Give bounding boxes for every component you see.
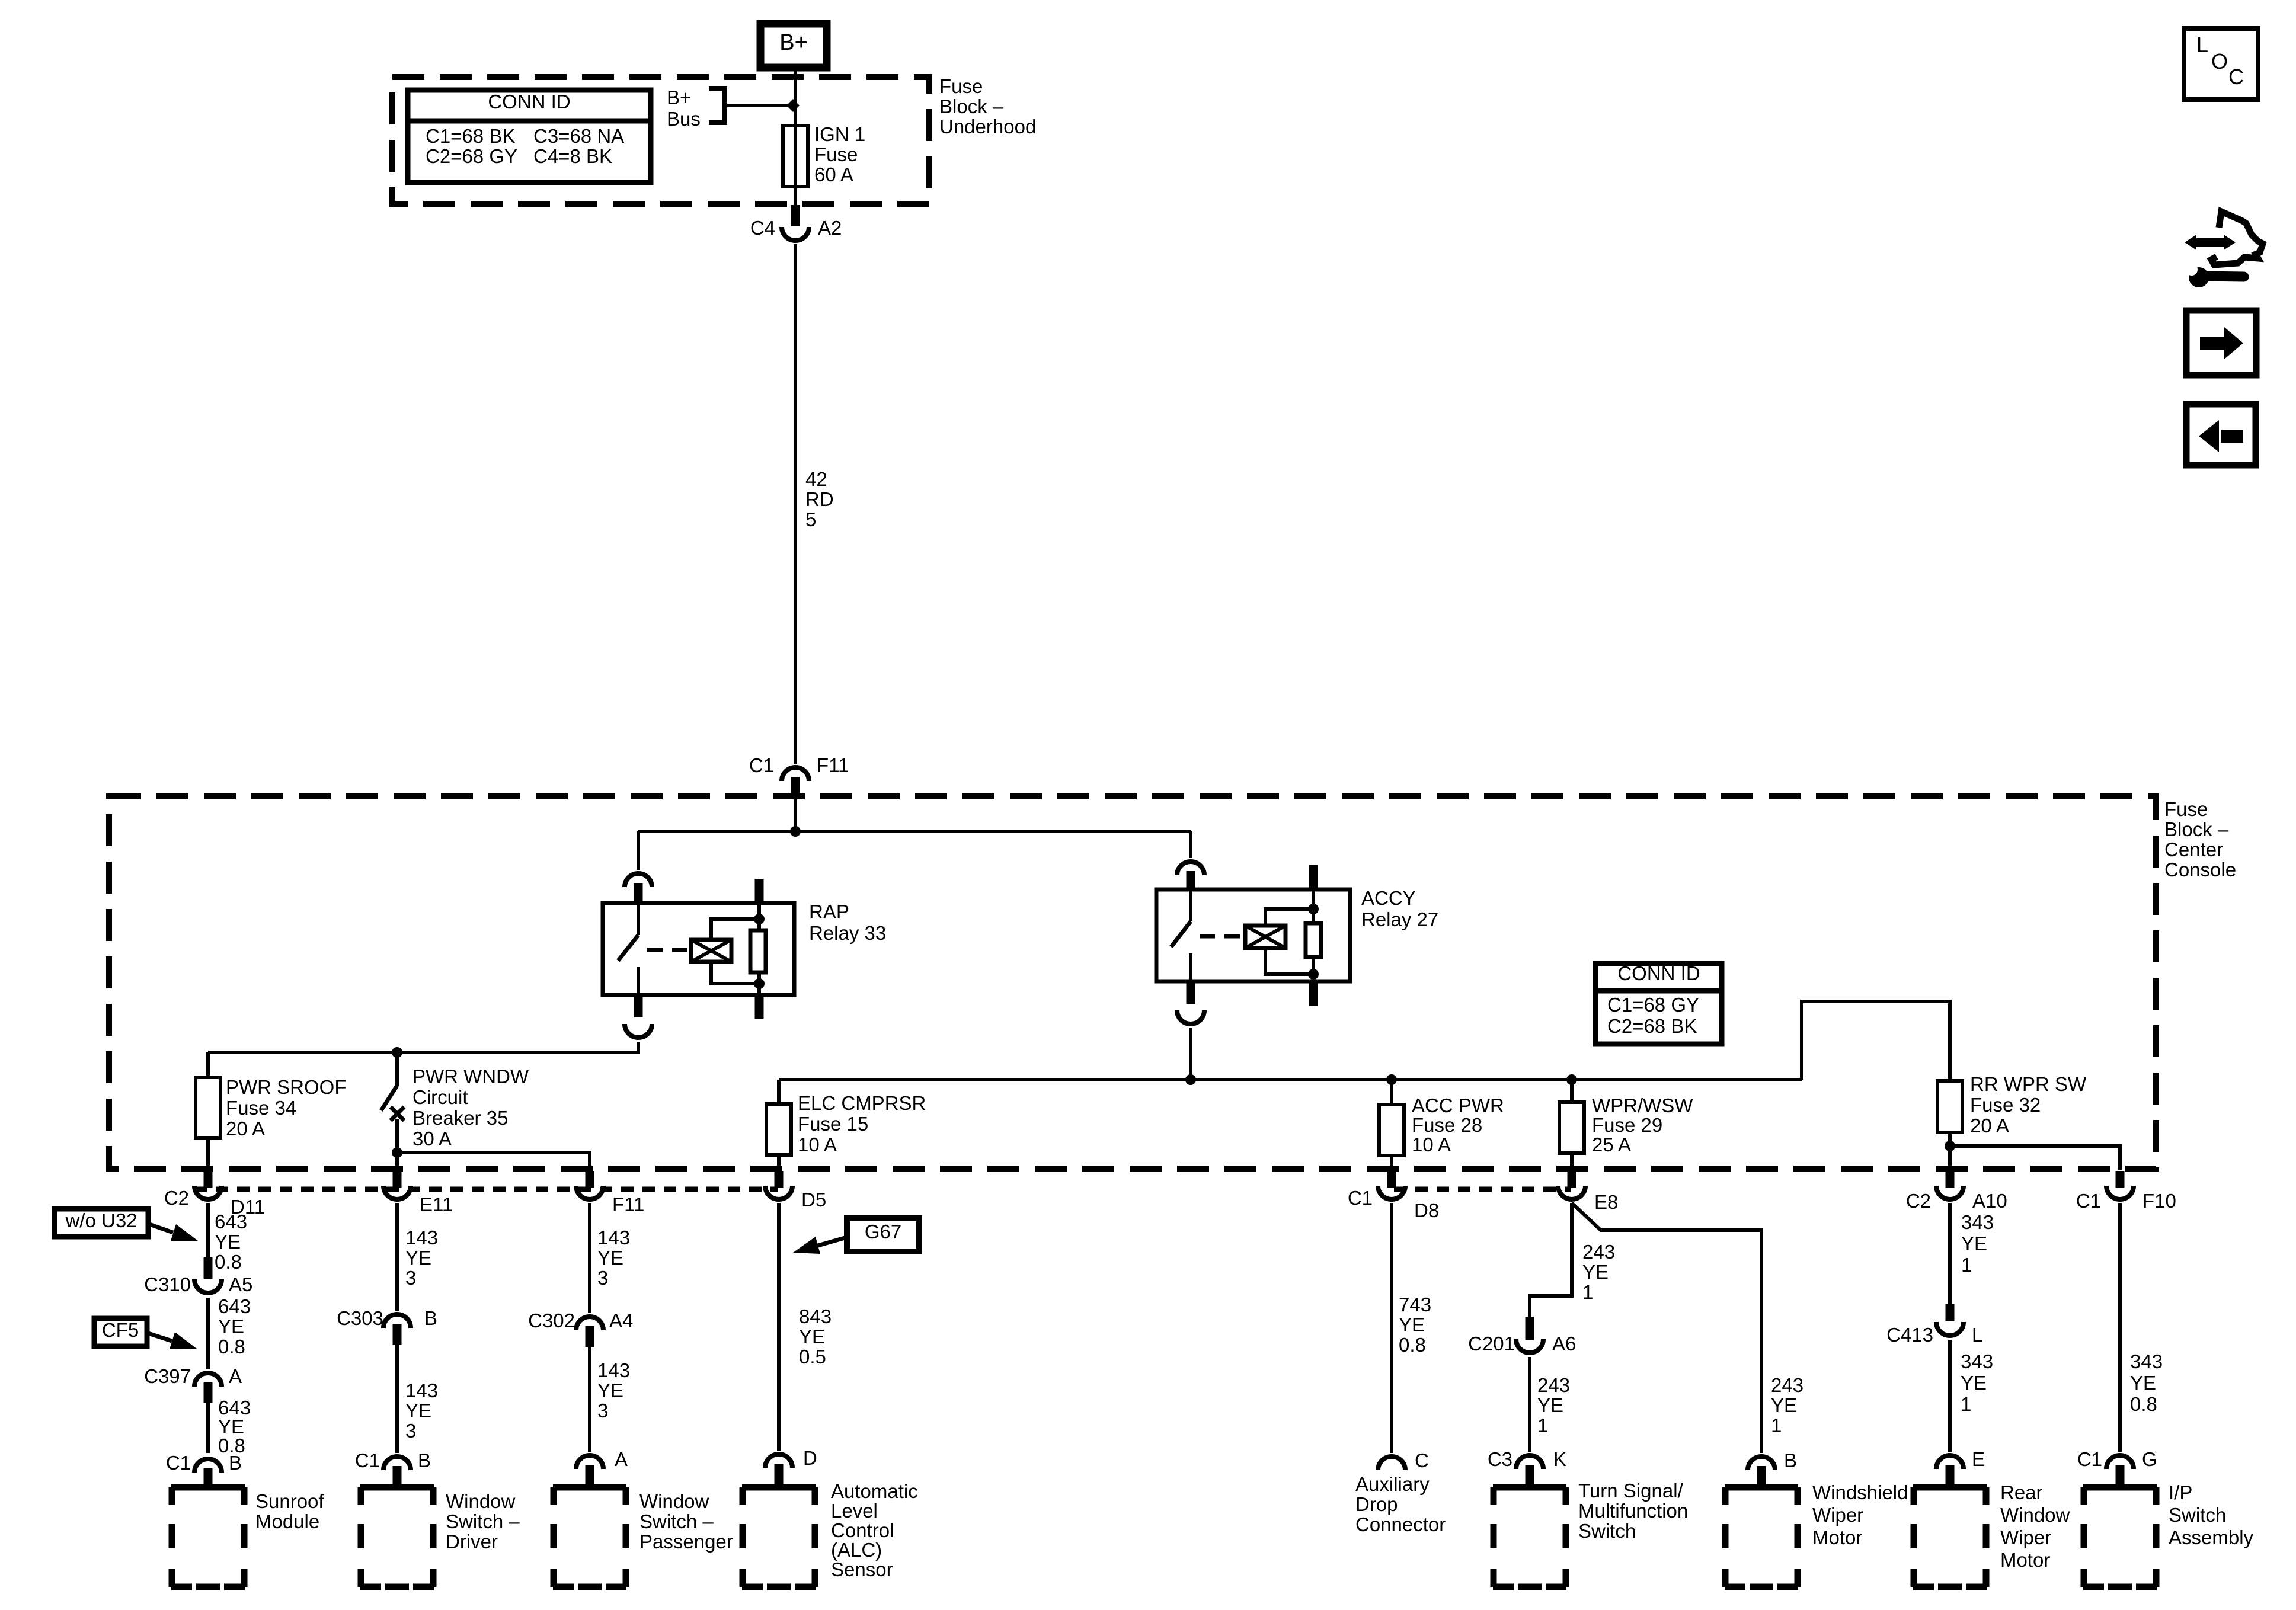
connector C397 pin A inline [194,1373,222,1387]
wire 343 YE 0.8 [2118,1203,2122,1452]
svg-text:1: 1 [1961,1254,1972,1276]
svg-text:F10: F10 [2142,1190,2176,1212]
wire rail to ACC PWR fuse [1390,1080,1393,1105]
svg-text:643: 643 [218,1295,251,1317]
wire 143 YE 3 segment 1 col3 [588,1203,591,1313]
svg-text:CONN ID: CONN ID [488,91,570,113]
svg-text:0.8: 0.8 [1399,1334,1426,1356]
svg-text:843: 843 [799,1305,832,1327]
svg-text:w/o U32: w/o U32 [65,1209,137,1231]
svg-text:343: 343 [1961,1211,1994,1233]
wire fuse 32 to A10 and F10 branch [1948,1132,1952,1170]
svg-text:B+: B+ [667,87,691,108]
arrow CF5 to wire [148,1333,172,1341]
connector C303 pin B inline [383,1314,411,1328]
RAP relay actuation dashed link [647,948,691,952]
node RAP coil bottom junction [754,978,765,989]
module Window Switch Driver box [360,1484,381,1491]
svg-text:A5: A5 [229,1273,252,1295]
connector pin E8 fuse block exit [1568,1171,1576,1188]
svg-text:YE: YE [597,1379,623,1401]
fuse WPR/WSW Fuse 29 25A [1559,1102,1584,1153]
wire 343 YE 1 segment 1 [1948,1203,1952,1304]
svg-text:B: B [424,1307,437,1329]
module Windshield Wiper Motor box [1725,1484,1745,1491]
svg-text:Turn Signal/: Turn Signal/ [1578,1480,1684,1502]
svg-text:C1=68 GY: C1=68 GY [1607,994,1699,1016]
node B+ bus junction diamond [786,99,800,112]
wire RAP output to left fuse rail [208,1042,638,1052]
svg-text:743: 743 [1399,1294,1431,1315]
icon LOC reference box [2184,28,2258,100]
connector C201 pin A6 inline [1526,1317,1534,1340]
node ACCY rail junction [1185,1074,1196,1085]
ACCY relay pin 5 stubs [1309,865,1318,889]
svg-text:143: 143 [597,1227,630,1249]
svg-text:Motor: Motor [2000,1549,2050,1571]
svg-text:Underhood: Underhood [939,116,1036,137]
svg-text:343: 343 [1961,1350,1993,1372]
svg-text:Block –: Block – [2164,818,2229,840]
svg-text:643: 643 [215,1211,247,1233]
svg-text:C1: C1 [2076,1190,2101,1212]
svg-text:C1: C1 [355,1449,380,1471]
connector C1 pin B sunroof module [194,1459,222,1473]
svg-text:Control: Control [831,1519,894,1541]
connector pin F11 fuse block exit [586,1171,594,1188]
svg-text:RD: RD [805,488,834,510]
connector C413 pin L inline [1946,1304,1955,1321]
dotted in-line harness connector row left [194,1187,778,1192]
svg-text:243: 243 [1537,1374,1570,1396]
svg-text:3: 3 [597,1267,608,1289]
ACCY relay coil leads [1265,909,1313,926]
wire fuse 34 to connector D11 [206,1138,210,1170]
svg-text:60 A: 60 A [814,164,853,185]
svg-text:D5: D5 [801,1189,826,1211]
ACCY relay switch contact [1189,889,1192,921]
svg-text:YE: YE [218,1315,244,1337]
wire right rail to ELC CMPRSR fuse [777,1080,781,1104]
svg-text:1: 1 [1771,1414,1782,1436]
svg-text:YE: YE [1961,1233,1987,1254]
svg-text:Block –: Block – [939,95,1004,117]
svg-text:Fuse: Fuse [2164,798,2208,820]
svg-text:C2=68 BK: C2=68 BK [1607,1015,1697,1037]
svg-text:K: K [1553,1448,1566,1470]
svg-text:0.8: 0.8 [2130,1393,2157,1415]
svg-text:Sunroof: Sunroof [255,1490,324,1512]
svg-text:E11: E11 [420,1193,453,1215]
svg-text:1: 1 [1582,1281,1593,1303]
svg-text:Level: Level [831,1500,878,1522]
svg-text:F11: F11 [612,1193,644,1215]
svg-text:Motor: Motor [1812,1526,1862,1548]
svg-text:YE: YE [597,1247,623,1269]
wire E8 drop to C201 [1530,1203,1572,1323]
wire 143 YE 3 segment 2 [395,1345,399,1453]
svg-text:C397: C397 [144,1365,191,1387]
module Window Switch Passenger box [553,1484,574,1491]
svg-text:C2=68 GY: C2=68 GY [426,145,517,167]
svg-text:L: L [2196,33,2208,57]
svg-text:A6: A6 [1552,1333,1576,1355]
svg-text:F11: F11 [817,754,849,776]
svg-text:243: 243 [1582,1241,1615,1263]
svg-text:Relay 27: Relay 27 [1361,908,1438,930]
svg-text:C4=8 BK: C4=8 BK [533,145,612,167]
svg-text:Switch –: Switch – [446,1510,520,1532]
svg-text:10 A: 10 A [1412,1134,1451,1156]
wire relay feed rail [638,830,1191,833]
wire fuse 29 to connector E8 [1570,1153,1574,1170]
svg-text:C: C [2228,65,2244,89]
label w/o U32 flag box [55,1209,148,1237]
svg-text:G: G [2142,1448,2157,1470]
wire 643 YE 0.8 segment 3 [206,1403,210,1453]
svg-text:Fuse 29: Fuse 29 [1592,1114,1662,1136]
connector C1 pin D8 fuse block exit [1387,1171,1396,1188]
svg-text:Wiper: Wiper [1812,1504,1863,1526]
svg-text:C: C [1415,1449,1429,1471]
RAP relay coil leads [711,919,759,940]
connector C302 pin A4 inline [576,1317,603,1330]
node ACC PWR rail junction [1386,1074,1397,1085]
svg-text:B: B [1784,1449,1797,1471]
svg-text:YE: YE [1961,1372,1987,1394]
fuse ACC PWR Fuse 28 10A [1379,1105,1404,1156]
svg-text:A: A [229,1365,242,1387]
connector pin E11 fuse block exit [393,1171,402,1188]
svg-text:20 A: 20 A [226,1118,265,1140]
node left rail breaker junction [392,1047,402,1058]
svg-text:ELC CMPRSR: ELC CMPRSR [798,1092,926,1114]
relay ACCY Relay 27 body [1156,889,1350,981]
node breaker output junction [392,1147,402,1158]
svg-text:WPR/WSW: WPR/WSW [1592,1094,1693,1116]
svg-text:Auxiliary: Auxiliary [1355,1473,1430,1495]
svg-text:C4: C4 [750,217,775,239]
svg-text:Breaker 35: Breaker 35 [412,1107,508,1129]
svg-text:Wiper: Wiper [2000,1526,2051,1548]
svg-text:1: 1 [1537,1414,1548,1436]
svg-text:Driver: Driver [446,1531,498,1553]
svg-text:Window: Window [446,1490,516,1512]
svg-text:Assembly: Assembly [2169,1526,2254,1548]
svg-text:3: 3 [405,1420,416,1442]
svg-text:Bus: Bus [667,108,701,130]
svg-text:A4: A4 [609,1310,633,1331]
RAP relay coil [691,940,731,962]
svg-text:B+: B+ [779,30,808,55]
svg-text:25 A: 25 A [1592,1134,1631,1156]
node feed rail junction [790,826,801,837]
connector RAP relay pin bottom [634,995,643,1017]
fuse PWR SROOF Fuse 34 20A [196,1077,220,1138]
wire bus bracket to B+ node [725,104,791,107]
svg-text:C413: C413 [1886,1324,1933,1346]
wire E8 to windshield wiper motor [1572,1203,1761,1453]
svg-text:C1=68 BK: C1=68 BK [426,125,515,147]
svg-text:Window: Window [639,1490,709,1512]
connector ACCY relay pin bottom [1187,981,1195,1004]
connector C310 pin A5 inline [204,1257,213,1279]
wire 843 YE 0.5 [777,1203,781,1451]
wire fuse 28 to connector D8 [1390,1156,1393,1170]
svg-text:PWR WNDW: PWR WNDW [412,1065,529,1087]
ACCY relay resistor [1306,923,1321,957]
icon vehicle outline with double arrow and wrench [2211,212,2263,265]
label CF5 flag box [94,1318,147,1346]
svg-text:Fuse: Fuse [814,143,858,165]
connector C3 pin K turn signal switch [1516,1455,1543,1469]
wire rail to WPR/WSW fuse [1570,1080,1574,1102]
svg-text:243: 243 [1771,1374,1803,1396]
svg-text:I/P: I/P [2169,1481,2192,1503]
CONN ID table underhood [408,90,651,183]
svg-text:Switch –: Switch – [639,1510,714,1532]
svg-text:Console: Console [2164,859,2236,881]
connector C2 pin A10 fuse block exit [1946,1171,1955,1188]
svg-text:143: 143 [405,1227,438,1249]
connector C1 pin G IP switch assembly [2106,1455,2134,1469]
wire 343 YE 1 segment 2 [1948,1340,1952,1452]
wire 143 YE 3 segment 2 col3 [588,1347,591,1452]
svg-text:L: L [1972,1324,1982,1346]
connector pin E rear window wiper motor [1936,1455,1964,1469]
svg-text:C1: C1 [1348,1187,1373,1209]
svg-text:C2: C2 [1906,1190,1931,1212]
connector pin D ALC sensor [765,1454,792,1468]
wire breaker junction to F11 drop [397,1153,590,1170]
node WPR/WSW rail junction [1566,1074,1577,1085]
ACCY relay actuation dashed link [1200,934,1245,939]
svg-text:RR WPR SW: RR WPR SW [1970,1073,2087,1095]
wire ACCY output to right fuse rail [779,1028,1191,1080]
module Sunroof Module box [171,1484,192,1491]
wire 643 YE 0.8 segment 2 [206,1298,210,1369]
svg-text:D: D [803,1447,817,1469]
svg-text:Drop: Drop [1355,1493,1398,1515]
CONN ID table center console [1595,964,1722,1044]
svg-text:C2: C2 [164,1187,189,1209]
svg-text:Module: Module [255,1510,319,1532]
svg-text:ACCY: ACCY [1361,887,1416,909]
connector pin A window switch passenger [576,1455,603,1469]
svg-text:A10: A10 [1972,1190,2007,1212]
connector RAP relay pin top [625,873,652,887]
svg-text:IGN 1: IGN 1 [814,123,865,145]
svg-text:C3=68 NA: C3=68 NA [533,125,624,147]
svg-text:RAP: RAP [809,901,849,923]
wire rail to RAP relay pin 1 [637,831,640,870]
circuit breaker PWR WNDW 35 switch blade [395,1052,399,1086]
dotted in-line harness connector row right [1394,1187,1571,1192]
node ACCY coil bottom junction [1308,969,1319,980]
wire 643 YE 0.8 segment 1 [206,1203,210,1265]
fuse RR WPR SW Fuse 32 20A [1937,1081,1962,1132]
svg-text:CF5: CF5 [102,1319,139,1341]
svg-text:20 A: 20 A [1970,1115,2009,1137]
arrow w/o U32 to wire [149,1224,173,1233]
connector pin B windshield wiper motor [1748,1457,1775,1470]
wire rail to ACCY relay pin 1 [1189,831,1192,858]
wire rail riser to RR WPR SW fuse [1802,1001,1950,1081]
svg-text:Multifunction: Multifunction [1578,1500,1688,1522]
svg-text:Windshield: Windshield [1812,1481,1908,1503]
svg-text:YE: YE [215,1231,241,1253]
svg-text:0.8: 0.8 [218,1336,245,1358]
node fuse 32 output junction [1945,1141,1955,1151]
connector C1 pin B window switch driver [383,1457,411,1470]
wire fuse 15 to connector D5 [777,1155,781,1170]
svg-text:0.5: 0.5 [799,1346,826,1368]
module Turn Signal Multifunction Switch box [1493,1484,1514,1491]
svg-text:0.8: 0.8 [215,1251,242,1273]
svg-text:C3: C3 [1488,1448,1512,1470]
svg-text:E: E [1972,1448,1985,1470]
wire F11 feed to relay distribution [794,798,797,831]
svg-text:O: O [2211,49,2228,73]
wire 42 RD 5 from C4 A2 to C1 F11 [794,244,797,764]
svg-text:B: B [418,1449,431,1471]
svg-text:PWR SROOF: PWR SROOF [226,1076,347,1098]
svg-text:YE: YE [1771,1394,1797,1416]
svg-text:343: 343 [2130,1350,2163,1372]
svg-text:Circuit: Circuit [412,1086,468,1108]
svg-text:C303: C303 [337,1307,383,1329]
svg-text:1: 1 [1961,1393,1971,1415]
svg-text:Fuse 28: Fuse 28 [1412,1114,1482,1136]
svg-text:Automatic: Automatic [831,1480,918,1502]
icon back arrow box [2186,404,2256,465]
svg-text:C1: C1 [166,1452,191,1474]
svg-text:C201: C201 [1468,1333,1515,1355]
svg-text:G67: G67 [865,1221,901,1243]
RAP relay resistor [750,930,766,972]
RAP relay pin 5 stubs [755,879,764,903]
module IP Switch Assembly box [2083,1484,2104,1491]
connector pin C auxiliary drop [1378,1457,1405,1470]
svg-text:YE: YE [1582,1261,1609,1283]
svg-text:Connector: Connector [1355,1513,1446,1535]
svg-text:E8: E8 [1594,1191,1618,1213]
svg-text:C1: C1 [749,754,774,776]
svg-text:YE: YE [1399,1314,1425,1336]
B+ bus bracket [709,86,725,91]
connector C1 pin F11 inline [782,767,809,781]
svg-text:3: 3 [597,1400,608,1422]
wire breaker to junction [395,1119,399,1169]
node RAP coil top junction [754,914,765,924]
wire branch to F10 drop [1950,1146,2120,1170]
svg-text:143: 143 [597,1359,630,1381]
wire 743 YE 0.8 [1390,1203,1393,1453]
svg-text:YE: YE [799,1326,825,1347]
connector C2 pin D11 fuse block exit [204,1171,213,1188]
svg-text:YE: YE [2130,1372,2156,1394]
svg-text:Passenger: Passenger [639,1531,733,1553]
breaker contact x mark [391,1107,404,1121]
fuse block center console dashed box [109,796,2156,1169]
svg-text:YE: YE [405,1247,431,1269]
svg-text:42: 42 [805,468,827,490]
svg-text:Fuse: Fuse [939,75,983,97]
svg-text:Fuse 32: Fuse 32 [1970,1094,2041,1116]
svg-text:Switch: Switch [1578,1520,1636,1542]
connector ACCY relay pin top [1177,862,1204,875]
wire 243 YE 1 to turn signal switch [1528,1357,1531,1452]
connector C4 pin A2 inline [791,205,800,226]
svg-text:D8: D8 [1414,1199,1439,1221]
svg-text:10 A: 10 A [798,1134,837,1156]
svg-text:143: 143 [405,1379,438,1401]
ACCY relay coil [1245,926,1285,948]
connector C1 pin F10 fuse block exit [2116,1171,2125,1188]
svg-text:C310: C310 [144,1273,191,1295]
svg-text:Switch: Switch [2169,1504,2226,1526]
svg-text:Rear: Rear [2000,1481,2043,1503]
relay RAP Relay 33 body [603,903,794,995]
connector pin D5 fuse block exit [775,1171,784,1188]
icon forward arrow box [2186,311,2256,375]
B+ battery terminal box [760,24,827,68]
RAP relay switch contact [637,903,640,935]
svg-text:Window: Window [2000,1504,2070,1526]
svg-text:30 A: 30 A [412,1128,452,1150]
svg-text:C302: C302 [528,1310,575,1331]
wire B+ to IGN 1 fuse [794,64,797,207]
svg-text:A2: A2 [818,217,842,239]
svg-text:Relay 33: Relay 33 [809,922,886,944]
fuse ELC CMPRSR Fuse 15 10A [766,1104,791,1155]
svg-text:YE: YE [1537,1394,1563,1416]
svg-text:Sensor: Sensor [831,1558,893,1580]
svg-text:(ALC): (ALC) [831,1539,882,1561]
arrow G67 to wire [818,1237,847,1246]
svg-text:3: 3 [405,1267,416,1289]
svg-text:B: B [229,1452,242,1474]
wire left rail to PWR SROOF fuse [206,1052,210,1077]
svg-text:5: 5 [805,508,816,530]
svg-text:Fuse 34: Fuse 34 [226,1097,296,1119]
module Rear Window Wiper Motor box [1913,1484,1934,1491]
svg-text:Fuse 15: Fuse 15 [798,1113,868,1135]
svg-text:C1: C1 [2077,1448,2102,1470]
node ACCY coil top junction [1308,904,1319,914]
label G67 flag box [847,1218,919,1251]
svg-text:ACC PWR: ACC PWR [1412,1094,1504,1116]
svg-text:CONN ID: CONN ID [1617,962,1700,984]
wire 143 YE 3 segment 1 [395,1203,399,1311]
svg-text:Center: Center [2164,838,2223,860]
fuse IGN 1 60A F-IGN1 [783,126,808,187]
svg-text:YE: YE [405,1400,431,1422]
module Automatic Level Control Sensor box [742,1484,763,1491]
fuse block underhood dashed box [392,77,929,204]
svg-text:A: A [615,1448,628,1470]
